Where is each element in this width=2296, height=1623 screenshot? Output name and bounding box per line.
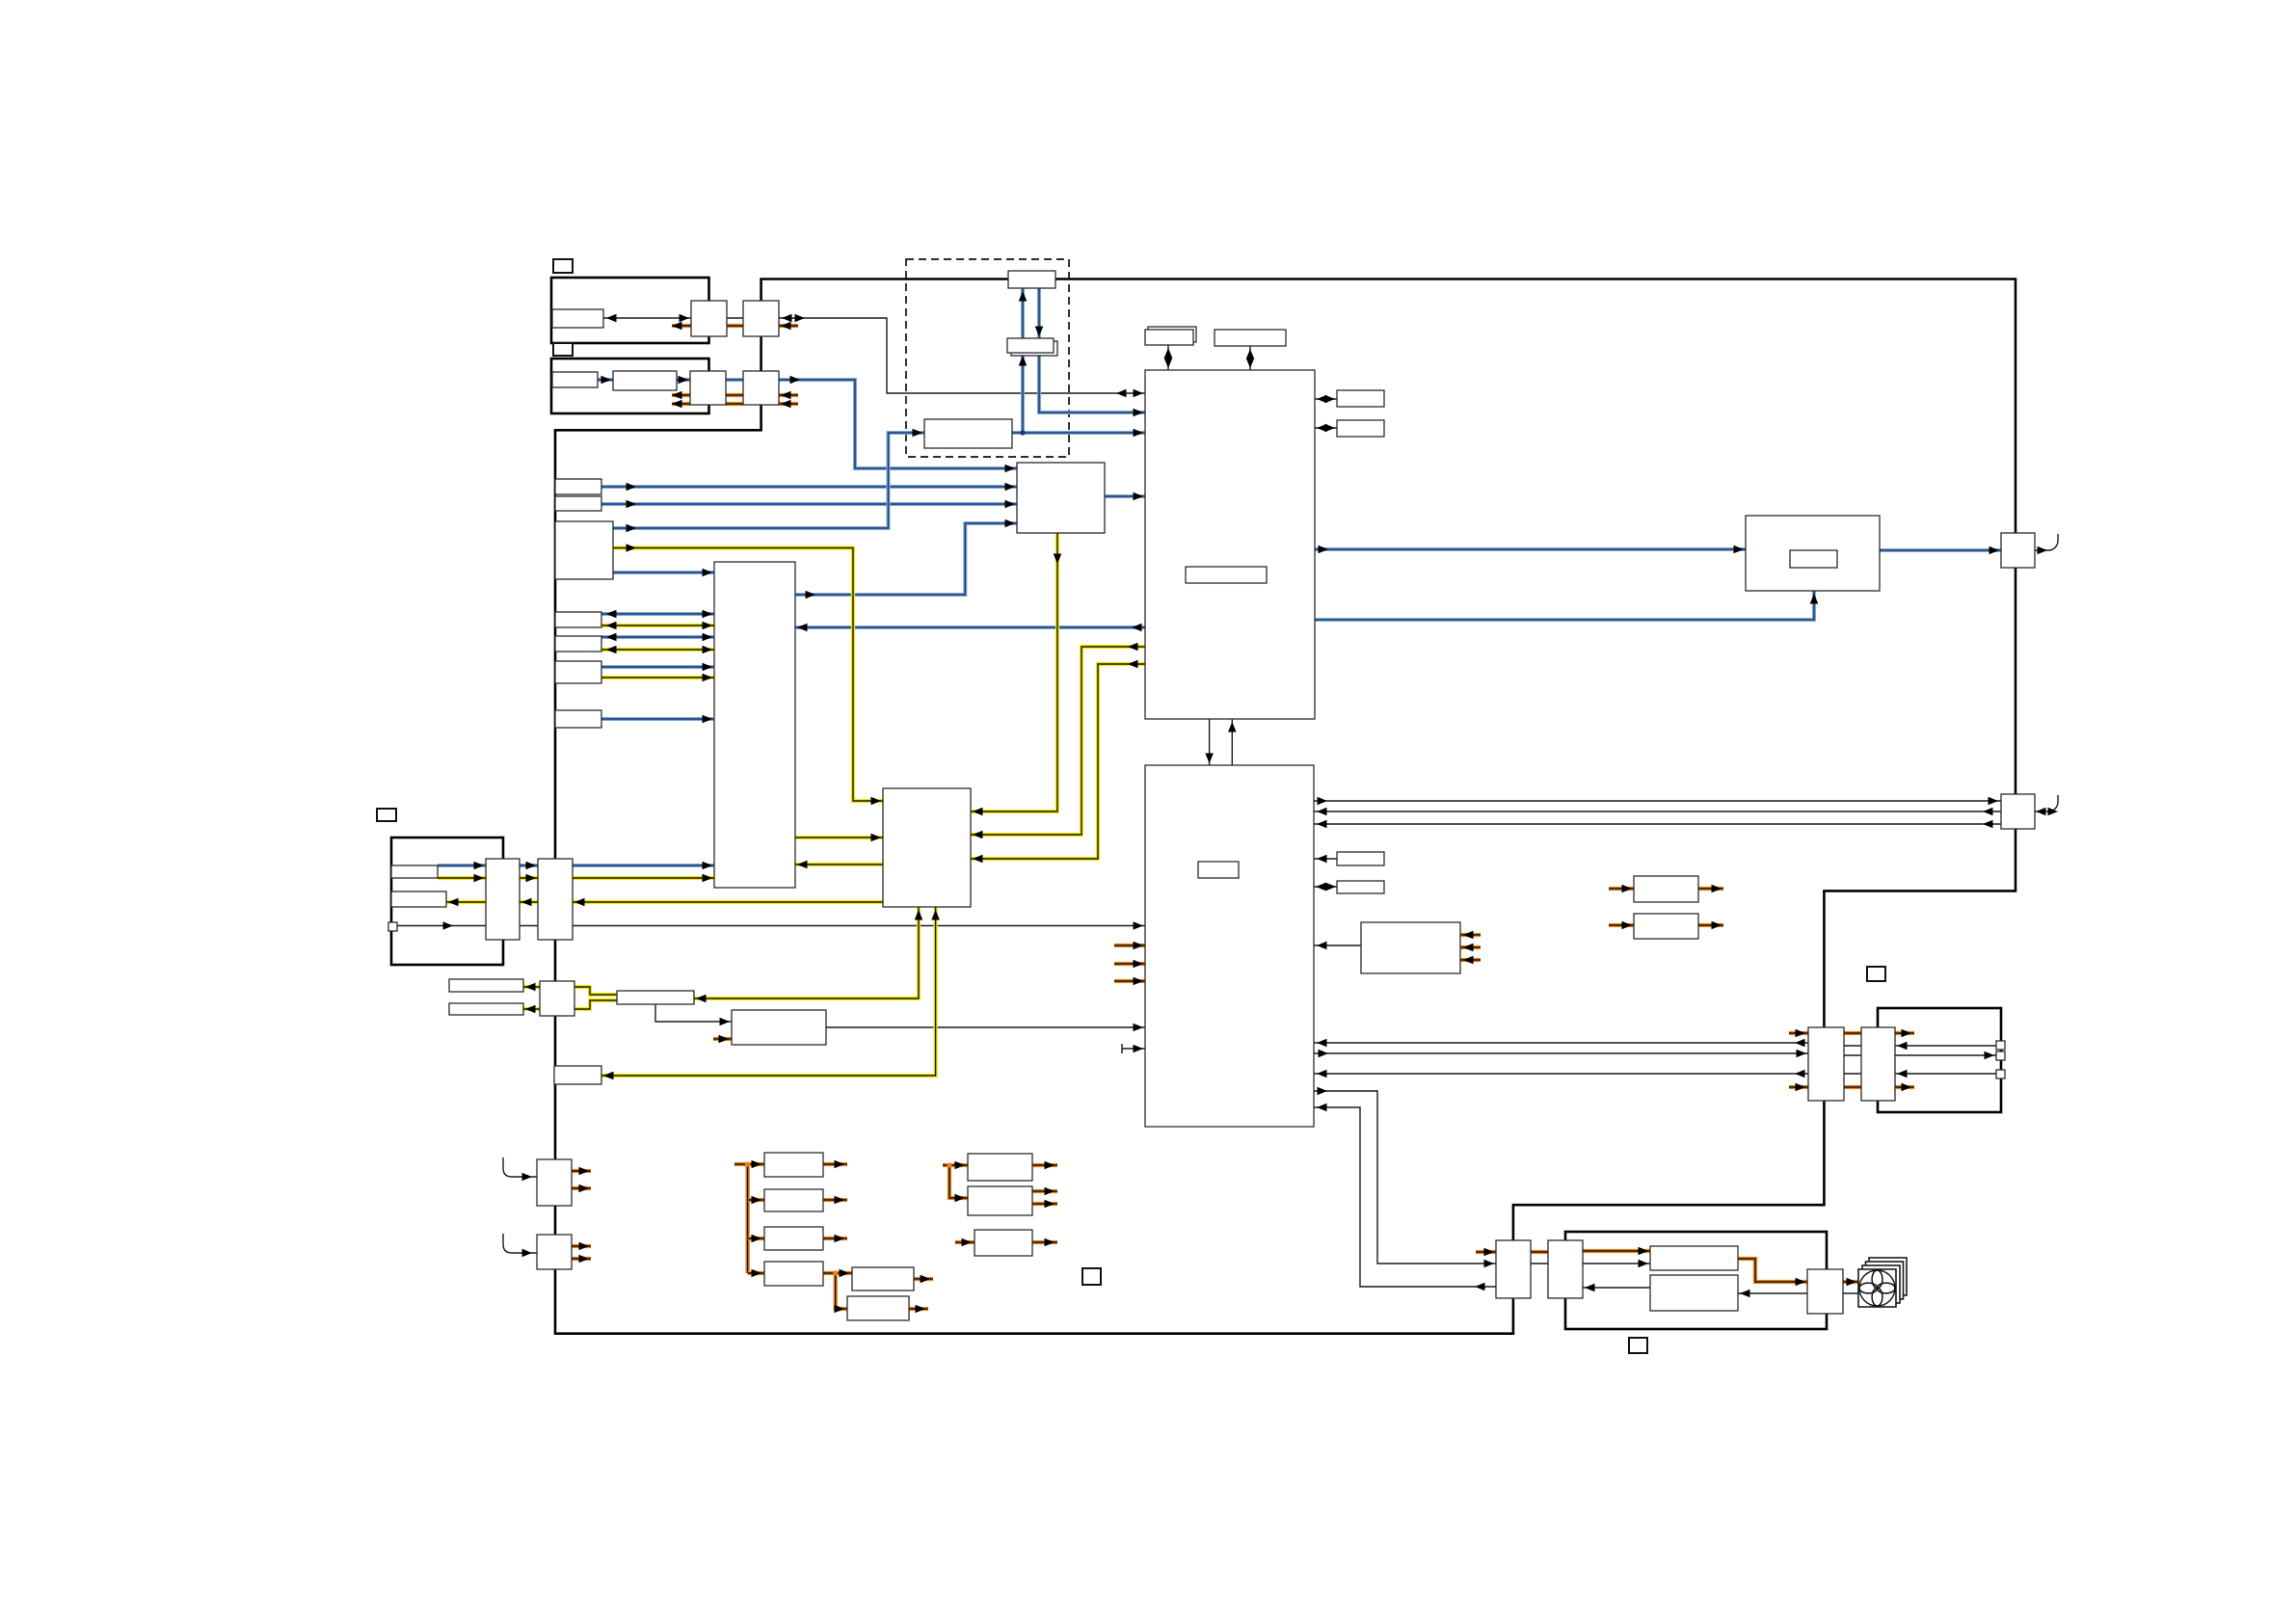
wire P2 to conn1 (1895, 1045, 1996, 1047)
orange stub K in b (1114, 962, 1145, 966)
arrowheads curls (522, 1173, 533, 1182)
orange stub QB3 in (955, 1240, 974, 1244)
sensor N2 (391, 891, 446, 907)
orange stub SQ3 a (572, 1244, 591, 1248)
yellow wire SQ to W1 (523, 985, 540, 989)
orange branch PB2 (748, 1198, 764, 1202)
frame F1 (top-left module) (551, 278, 709, 343)
blue wire B4 to G in1 (779, 380, 1017, 468)
cable hook at CN2 (2035, 795, 2058, 811)
wire TB2 to J (1249, 346, 1251, 370)
arrowheads blue right side (1319, 545, 1329, 554)
wire P2 to conn3 (1895, 1073, 1996, 1075)
blue wire J to RBIG bottom (1315, 591, 1814, 620)
memory TB2 (1215, 330, 1286, 346)
orange stub RO2 out (1698, 923, 1723, 927)
tab label frame F1 (553, 259, 573, 273)
orange stub YB2 in (713, 1037, 732, 1041)
arrowheads orange stubs F1 F2 (672, 322, 682, 331)
wire P1 to P2 line2 (1844, 1054, 1861, 1056)
orange stub M3 b (1460, 945, 1481, 949)
yellow wire J to H first (971, 647, 1145, 835)
orange stub B4 right b (779, 402, 798, 406)
orange stub P1 in b (1789, 1085, 1808, 1089)
output block RBIG (1746, 516, 1880, 591)
fan connector FC (1807, 1269, 1843, 1314)
key box W2 (449, 1003, 523, 1015)
yellow wire SQ to YB1 upper (574, 987, 617, 995)
IC M3 (eeprom) (1361, 922, 1460, 973)
wire S1 to S2 ctrl (1531, 1263, 1548, 1264)
orange stub RO1 in (1609, 887, 1634, 891)
orange branch to QB2 (949, 1165, 968, 1198)
IC JM1 (1337, 390, 1384, 407)
main IC J (video processor) (1145, 370, 1315, 719)
sensor N1 (391, 865, 438, 878)
blue wire L6 to E (601, 665, 714, 669)
yellow wire N1 to E via V1 V2 (438, 876, 714, 880)
IC V2 (538, 859, 573, 940)
orange stub B1 to B2 (727, 324, 743, 328)
orange stub SQ2 a (572, 1169, 591, 1173)
wire K to J up (1231, 719, 1233, 765)
orange PB tree vertical (745, 1164, 749, 1273)
jack L5 (555, 636, 601, 652)
yellow wire SQ to W2 (523, 1007, 540, 1011)
fan (stacked) (1858, 1258, 1907, 1307)
main IC K (system control) (1145, 765, 1314, 1127)
regulator QB2 (968, 1186, 1032, 1215)
label box KI (1198, 862, 1239, 878)
orange stub B2 right (779, 324, 798, 328)
orange stub RO2 in (1609, 923, 1634, 927)
tab label frame F2 (553, 343, 573, 356)
wire R2 to S2 status (1583, 1287, 1650, 1289)
orange stub K in a (1114, 944, 1145, 947)
blue wire G to J (1105, 494, 1145, 498)
wire JM2 to J (1315, 427, 1337, 429)
blue wire RBIG to CN1 (1880, 548, 2001, 552)
orange S1 to S2 (1531, 1250, 1548, 1254)
arrowheads control bus top-left (606, 314, 617, 323)
frame F5 (fan module) (1565, 1232, 1827, 1329)
wire K to CN2 line1 (1314, 800, 2001, 802)
wire YB1 to YB2 (655, 1004, 732, 1022)
jack L3 (555, 521, 613, 579)
main board outline (thick border) (555, 279, 2016, 1334)
blue wire junction up to DB2 (1021, 353, 1025, 433)
IC R1 (fan driver) (1650, 1246, 1738, 1270)
connector c2 (1996, 1051, 2005, 1060)
orange stub SQ3 b (572, 1257, 591, 1261)
cable curl into SQ2 (503, 1157, 537, 1177)
converter B3 (690, 371, 726, 405)
connector SQ2 (537, 1159, 572, 1206)
wire B1 to B2 (727, 317, 743, 319)
blue wire IB2 to RB1 (598, 378, 613, 382)
connector nsq (388, 922, 397, 931)
orange stub B1 left (672, 324, 691, 328)
orange PB6 out (914, 1277, 933, 1281)
blue wire L3 to E (613, 571, 714, 574)
orange branch PB3 (748, 1237, 764, 1240)
blue wire J to RBIG (1315, 547, 1746, 551)
regulator PB3 (764, 1227, 823, 1250)
blue wire B3 to B4 (726, 378, 743, 382)
wire CN2 to K line2 (1314, 811, 2001, 812)
IC DB1 (on bus) (1008, 271, 1055, 288)
orange branch PB4 (748, 1271, 764, 1275)
regulator RO2 (1634, 914, 1698, 939)
yellow wire L4 to E (601, 624, 714, 627)
orange stub P1 in (1789, 1031, 1808, 1035)
regulator PB2 (764, 1189, 823, 1211)
orange R1 to FC (1738, 1259, 1807, 1282)
yellow wire H to YB1 (694, 907, 919, 998)
wire JM1 to J (1315, 398, 1337, 400)
jack L4 (555, 612, 601, 627)
orange PB1 out (823, 1162, 847, 1166)
orange feed PB tree top (734, 1162, 764, 1166)
IC G (switch) (1017, 463, 1105, 533)
orange PB4 to PB6 (823, 1271, 852, 1275)
yellow wire H to N2 via V2 V1 (446, 900, 883, 904)
wire B2 to U-J ctrl bus (779, 318, 1145, 393)
regulator PB1 (764, 1153, 823, 1177)
connector SQ (540, 981, 574, 1016)
yellow wire E to H (795, 836, 883, 839)
orange stub QB1 out (1032, 1163, 1057, 1167)
label box RBIG inner (1790, 550, 1837, 568)
wire S2 to R1 ctrl (1583, 1263, 1650, 1264)
IC V1 (486, 859, 520, 940)
mech deck box IB1 (552, 309, 603, 328)
wire P2 to conn2 (1895, 1054, 1996, 1056)
orange stub B4 right a (779, 393, 798, 397)
blue wire L3 to DB3 (613, 433, 924, 528)
wire S1 to K status return (1314, 1107, 1496, 1287)
orange P2 out b (1895, 1085, 1914, 1089)
yellow wire H to E (795, 863, 883, 866)
connector c3 (1996, 1070, 2005, 1078)
yellow wire G to H (971, 533, 1057, 811)
yellow wire SQ to YB1 lower (574, 1000, 617, 1009)
wire M2 to K (1314, 886, 1337, 888)
label box JI (1186, 567, 1267, 583)
orange PB5 out (909, 1307, 928, 1311)
blue wire E to G in4 (795, 523, 1017, 595)
frame F3 (left io module) (391, 838, 503, 965)
wire K to S1 ctrl (1314, 1091, 1496, 1264)
orange stub K in c (1114, 979, 1145, 983)
arrowheads K C2 and modules (1318, 797, 1328, 806)
wire K to P1 line1 (1314, 1042, 1808, 1044)
jack SB (554, 1066, 601, 1084)
orange branch to PB5 (836, 1273, 847, 1309)
blue wire RB1 to B3 (677, 378, 690, 382)
IC JM2 (1337, 420, 1384, 437)
arrowheads blue front-end (601, 376, 612, 385)
orange feed QB1 QB2 (943, 1163, 968, 1167)
yellow wire L6 to E (601, 676, 714, 679)
blue wire L7 to E (601, 717, 714, 721)
orange stub B3 to B4 b (726, 402, 743, 406)
driver P2 (1861, 1027, 1895, 1101)
connector SQ3 (537, 1235, 572, 1269)
IC S2 (1548, 1240, 1583, 1298)
key box W1 (449, 979, 523, 992)
IC DB2 shadow (1011, 341, 1057, 356)
wire K to P1 line3 (1314, 1073, 1808, 1075)
wire P1 to P2 line1 (1844, 1045, 1861, 1047)
arrowheads orange distribution (1134, 942, 1144, 950)
IC M1 (1337, 852, 1384, 865)
orange stub B3 left b (672, 402, 690, 406)
pickup box IB2 (552, 372, 598, 387)
wire K to P1 line2 (1314, 1052, 1808, 1054)
regulator QB3 (974, 1230, 1032, 1256)
wire YB2 to K (826, 1026, 1145, 1028)
wire J to K down (1209, 719, 1211, 765)
wire stub to K (1122, 1048, 1145, 1050)
jack L6 (555, 661, 601, 683)
blue wire DB2 down to J (1039, 353, 1145, 412)
IC DB2 (1007, 338, 1054, 353)
orange stub S1 in (1476, 1250, 1496, 1254)
IC R2 (fan sense) (1650, 1275, 1738, 1311)
converter B2 (743, 301, 779, 336)
jack L7 (555, 710, 601, 728)
IC M2 (1337, 881, 1384, 893)
converter B1 (691, 301, 727, 336)
arrowheads K to P lines (1317, 1039, 1327, 1048)
orange P1 to P2 b (1844, 1085, 1861, 1089)
orange stub QB2 out b (1032, 1202, 1057, 1206)
regulator PB6 (852, 1267, 914, 1290)
cable hook at CN1 (2035, 534, 2058, 550)
yellow wire L5 to E (601, 648, 714, 652)
junction dots (745, 430, 1026, 1275)
regulator PB5 (847, 1296, 909, 1320)
orange PB2 out (823, 1198, 847, 1202)
orange stub M3 a (1460, 933, 1481, 937)
jack L2 (555, 496, 601, 511)
IC H (audio amp) (883, 788, 971, 907)
connector c1 (1996, 1041, 2005, 1050)
wire CN2 to K line3 (1314, 823, 2001, 825)
IC YB1 (617, 991, 694, 1004)
orange stub M3 c (1460, 958, 1481, 962)
wire M3 to K (1314, 945, 1361, 946)
regulator RO1 (1634, 876, 1698, 902)
regulator PB4 (764, 1262, 823, 1286)
orange stub QB2 out a (1032, 1189, 1057, 1193)
blue wire J to E (795, 625, 1145, 629)
IC DB3 (924, 419, 1012, 448)
orange stub B3 left a (672, 393, 690, 397)
blue wire L2 to G in3 (601, 502, 1017, 506)
preamp RB1 (613, 371, 677, 390)
blue wire DB1 down to DB2 (1037, 288, 1041, 338)
frame F2 (second module) (551, 359, 709, 413)
memory TB1 shadow (1148, 327, 1196, 342)
dashed enclosure (optional unit) (906, 259, 1069, 457)
tick mark (1121, 1044, 1123, 1053)
IC S1 (1496, 1240, 1531, 1298)
connector CN1 (2001, 533, 2035, 568)
orange stub SQ2 b (572, 1186, 591, 1190)
arrowheads yellow wires (627, 544, 637, 552)
IC YB2 (reset) (732, 1010, 826, 1045)
IC E (audio/video switch) (714, 562, 795, 888)
wire IB1 to B1 (603, 317, 691, 319)
regulator QB1 (968, 1154, 1032, 1181)
frame F4 (right io module) (1878, 1008, 2001, 1112)
yellow wire J to H second (971, 664, 1145, 859)
jack L1 (555, 479, 601, 494)
orange stub QB3 out (1032, 1240, 1057, 1244)
driver P1 (1808, 1027, 1844, 1101)
wire M1 to K (1314, 858, 1337, 860)
blue wire DB3 to J (1012, 431, 1145, 435)
tab label T3 (1867, 967, 1885, 981)
blue wire L5 to E (601, 635, 714, 639)
blue wire L4 to E (601, 612, 714, 616)
yellow wire L3 to H (613, 548, 883, 802)
blue wire N1 to E via V1 V2 (438, 864, 714, 867)
orange P2 out a (1895, 1031, 1914, 1035)
wire TB1 to J (1167, 345, 1169, 370)
memory TB1 (1145, 330, 1193, 345)
tab label T4 (1629, 1338, 1647, 1353)
cable curl into SQ3 (503, 1234, 537, 1253)
arrowheads J K vertical pair (1205, 754, 1214, 764)
tab label frame F3 (377, 809, 396, 821)
blue wire DB2 up to DB1 (1021, 288, 1025, 338)
wire fan to R2 sense (1738, 1292, 1858, 1294)
orange PB3 out (823, 1237, 847, 1240)
orange P1 to P2 a (1844, 1031, 1861, 1035)
orange S2 to R1 (1583, 1249, 1650, 1253)
tab label T6 (1082, 1268, 1101, 1285)
orange FC to fan (1843, 1280, 1858, 1284)
connector CN2 (2001, 794, 2035, 829)
wire P1 to P2 line3 (1844, 1073, 1861, 1075)
orange stub B3 to B4 a (726, 393, 743, 397)
converter B4 (743, 371, 779, 405)
orange stub RO1 out (1698, 887, 1723, 891)
blue wire L1 to G in2 (601, 485, 1017, 489)
yellow wire H to SB (601, 907, 936, 1076)
wire sensor chain to K (397, 925, 1145, 927)
